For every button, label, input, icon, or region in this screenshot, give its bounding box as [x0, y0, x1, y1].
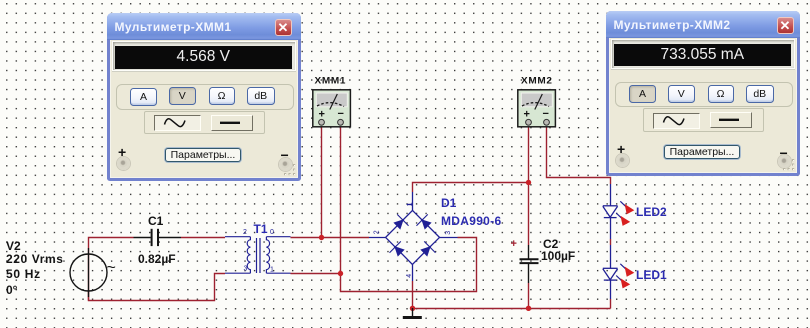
node junction ground rail — [410, 306, 415, 311]
pin 4 label D1 — [406, 274, 413, 278]
instrument probe XMM2 — [518, 90, 556, 127]
svg-text:0: 0 — [270, 229, 274, 236]
wire D1 plus output top rail — [413, 183, 529, 193]
svg-text:+: + — [319, 109, 325, 121]
label LED2 — [636, 206, 667, 218]
LED2 emission arrows — [616, 201, 634, 226]
ground — [403, 308, 422, 318]
label C2 refdes — [543, 238, 558, 250]
svg-text:2: 2 — [243, 229, 247, 236]
svg-text:3: 3 — [244, 266, 248, 273]
pin 3 label D1 — [445, 231, 452, 235]
wire XMM2 plus probe drop — [528, 127, 530, 183]
svg-text:~: ~ — [107, 260, 116, 277]
label D1 refdes — [441, 197, 456, 209]
wire C1 to T1 pin2 — [181, 237, 225, 239]
value label 220 Vrms — [6, 253, 64, 265]
svg-text:3: 3 — [445, 231, 452, 235]
svg-text:+: + — [524, 109, 530, 121]
multimeter window XMM2 — [606, 11, 800, 177]
multimeter window XMM1 — [107, 13, 301, 181]
plus polarity mark C2 — [511, 238, 517, 250]
label C1 refdes — [148, 215, 163, 227]
pin 1 label D1 — [406, 202, 413, 206]
svg-text:1: 1 — [406, 202, 413, 206]
value label MDA990-6 — [441, 215, 501, 227]
wire T1 pin0 to D1 AC left — [291, 237, 370, 239]
svg-text:−: − — [338, 108, 344, 120]
wire V2 bottom loop to T1 pin3 — [89, 274, 226, 301]
wire LED2 cathode to LED1 anode — [610, 239, 612, 245]
pin 1 label T1 — [270, 267, 274, 274]
diode D1c bottom-left — [390, 241, 404, 255]
LED2 — [603, 184, 618, 239]
capacitor C1 — [134, 229, 182, 246]
node junction C2 bottom — [526, 306, 531, 311]
pin 3 label T1 — [244, 266, 248, 273]
pin 0 label T1 — [270, 229, 274, 236]
diode D1b top-right — [416, 214, 430, 228]
transformer T1 — [225, 237, 291, 274]
value label 0 deg — [6, 284, 17, 296]
svg-text:1: 1 — [270, 267, 274, 274]
source V2 AC symbol — [70, 248, 116, 297]
wire C2 top connection — [528, 183, 530, 246]
node junction T1 bottom XMM1 — [338, 271, 343, 276]
wire ground bottom rail — [413, 281, 611, 309]
pin 2 label D1 — [374, 230, 381, 234]
capacitor C2 polarized — [520, 245, 539, 283]
label LED1 — [636, 269, 667, 281]
value label 0.82uF — [138, 253, 176, 265]
wire V2 top to C1 — [89, 238, 134, 301]
node junction top rail C2 XMM2 — [526, 180, 531, 185]
svg-text:4: 4 — [406, 274, 413, 278]
wire XMM1 plus probe drop — [321, 127, 323, 238]
label V2 refdes — [6, 240, 21, 252]
svg-text:+: + — [511, 238, 517, 250]
label XMM1 probe — [315, 77, 347, 86]
label T1 refdes — [254, 223, 268, 235]
wire XMM2 minus probe to LED2 anode — [547, 127, 611, 184]
diode D1a top-left — [394, 214, 408, 228]
wire C2 bottom connection — [528, 283, 530, 309]
svg-text:−: − — [543, 108, 549, 120]
wire T1 pin1 to D1 AC right — [291, 238, 477, 292]
wire LED1 cathode to bottom rail — [610, 299, 612, 309]
LED1 emission arrows — [616, 264, 634, 289]
node junction T1 top XMM1 — [319, 235, 324, 240]
diode D1d bottom-right — [421, 241, 435, 255]
LED1 — [603, 245, 618, 299]
bridge rectifier D1 — [369, 192, 458, 281]
pin 2 label T1 — [243, 229, 247, 236]
instrument probe XMM1 — [313, 90, 351, 127]
svg-text:2: 2 — [374, 230, 381, 234]
value label 50 Hz — [6, 268, 41, 280]
value label 100uF — [541, 250, 575, 262]
label XMM2 probe — [521, 77, 553, 86]
wire XMM1 minus probe drop — [340, 127, 342, 274]
